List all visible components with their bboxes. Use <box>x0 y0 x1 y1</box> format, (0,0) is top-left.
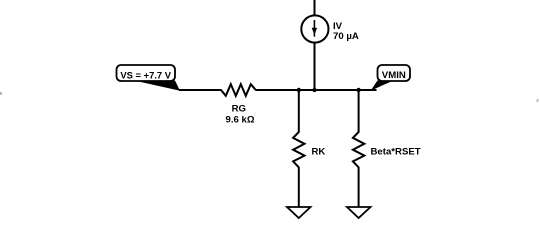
junction node C <box>356 88 360 92</box>
svg-text:RG: RG <box>232 103 246 114</box>
svg-text:VS = +7.7 V: VS = +7.7 V <box>120 70 171 81</box>
ground (Beta*RSET branch) <box>347 207 371 218</box>
resistor Beta*RSET <box>353 132 364 167</box>
ground (RK branch) <box>287 207 311 218</box>
wire Beta*RSET to ground <box>358 167 360 207</box>
net flag VMIN <box>371 65 411 91</box>
wire RG to node A <box>256 89 300 91</box>
faint speck right edge <box>537 99 539 102</box>
wire node A to node B <box>299 89 315 91</box>
wire node C to VMIN flag <box>359 89 377 91</box>
junction node A <box>297 88 301 92</box>
wire current source to node B <box>314 43 316 90</box>
current source IV <box>301 15 328 42</box>
svg-text:RK: RK <box>312 147 326 158</box>
svg-text:Beta*RSET: Beta*RSET <box>371 147 421 158</box>
wire node A down to RK <box>298 90 300 133</box>
wire node B to node C <box>315 89 359 91</box>
svg-text:VMIN: VMIN <box>382 70 406 81</box>
wire VS flag to RG <box>179 89 222 91</box>
resistor RG <box>221 84 256 96</box>
net flag VS = +7.7 V <box>117 65 181 91</box>
resistor RK <box>293 132 304 167</box>
svg-text:9.6 kΩ: 9.6 kΩ <box>225 114 254 125</box>
wire top lead into current source <box>314 0 316 16</box>
faint speck left edge <box>0 92 2 95</box>
wire node C down to Beta*RSET <box>358 90 360 133</box>
wire RK to ground <box>298 167 300 207</box>
junction node B <box>312 88 316 92</box>
svg-text:70 µA: 70 µA <box>333 31 359 42</box>
